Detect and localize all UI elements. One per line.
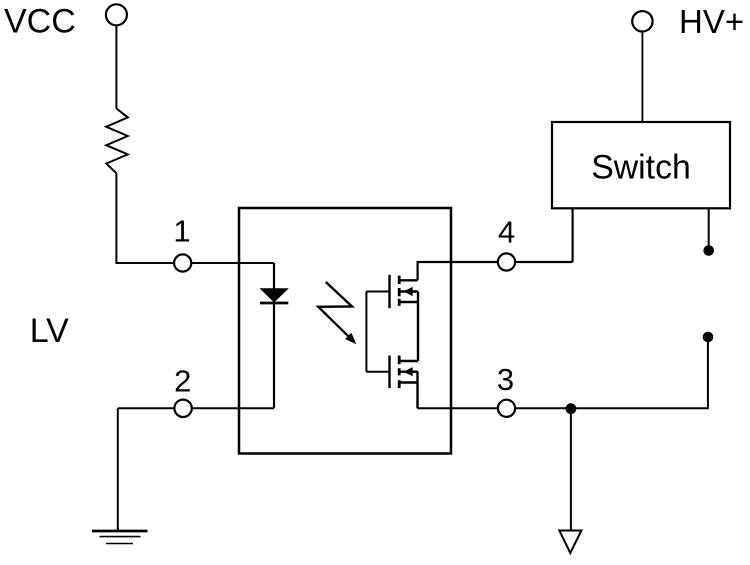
wire VCC terminal to resistor [115,25,117,109]
wire switch to top contact [708,209,710,248]
wire LED cathode drop [273,304,275,408]
wire Q1 source to Q2 drain [417,292,419,362]
wire resistor to pin 1 [116,173,274,263]
wire Q2 source to pin 3 [416,372,418,409]
svg-text:1: 1 [173,214,190,249]
pin 3 terminal [498,400,515,417]
pin 4 terminal [498,253,515,270]
svg-text:3: 3 [497,362,514,397]
svg-text:2: 2 [174,363,191,398]
svg-text:HV+: HV+ [679,3,744,40]
terminal VCC [106,4,127,25]
svg-text:VCC: VCC [4,3,76,41]
wire pin 4 riser to switch [571,209,573,262]
wire LED anode drop [273,263,275,290]
MOSFET Q1 [366,275,418,308]
wire junction to ground arrow [570,408,572,529]
light coupling arrow [318,282,356,344]
LED D1 [261,289,287,302]
wire HV+ terminal to switch [641,32,643,122]
terminal HV+ [632,11,652,31]
node top contact [703,245,714,256]
wire Q1 drain to pin 4 [418,262,573,280]
ground [92,531,148,544]
node bottom contact [703,332,714,343]
junction node [566,403,577,414]
switch box [552,122,730,208]
pin 2 terminal [174,400,191,417]
wire pin 2 to LED [118,407,274,409]
ground arrow [559,531,581,554]
resistor R1 [106,109,128,174]
wire pin 3 net [418,337,708,408]
svg-text:LV: LV [30,312,69,350]
svg-text:Switch: Switch [591,149,691,187]
pin 1 terminal [174,254,191,271]
optocoupler U1 body [239,208,451,454]
svg-text:4: 4 [498,215,515,250]
gate bus wire [365,292,367,372]
MOSFET Q2 [366,356,418,389]
wire pin 2 to ground [117,408,119,531]
